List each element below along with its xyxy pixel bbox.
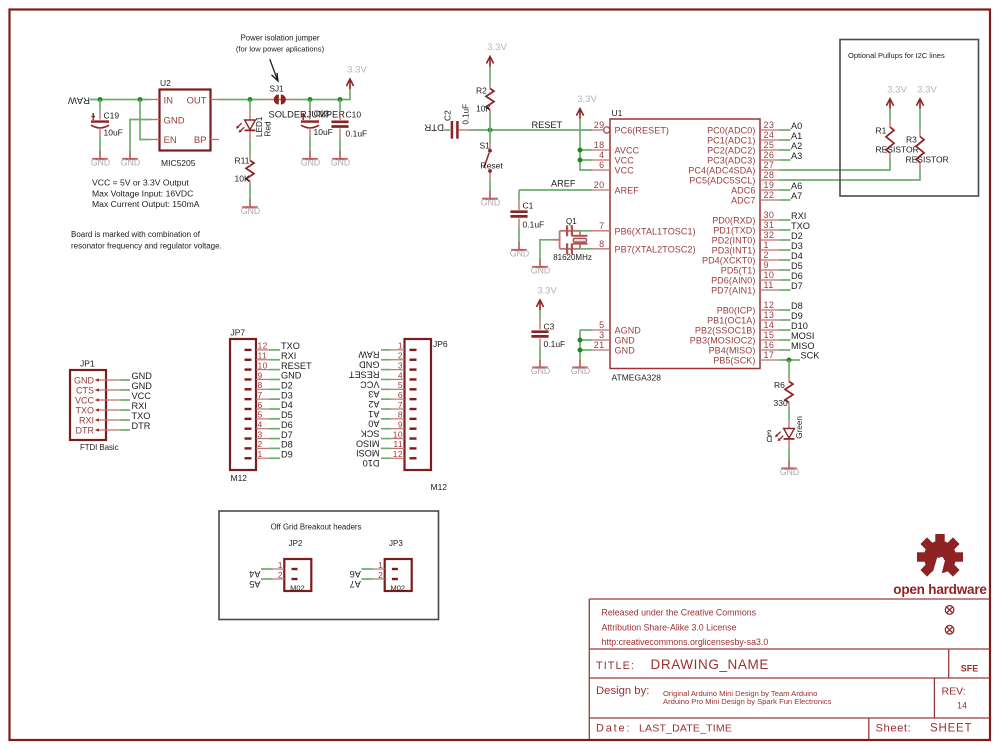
pin 4 VCC (592, 159, 610, 161)
header JP2 (273, 559, 312, 591)
svg-text:A0: A0 (791, 121, 802, 131)
svg-text:TXO: TXO (791, 221, 810, 231)
svg-text:JP7: JP7 (231, 328, 246, 338)
pin (489, 143, 491, 149)
pin 5 AGND (592, 329, 610, 331)
svg-text:PB3(MOSIOC2): PB3(MOSIOC2) (690, 336, 756, 346)
ground (241, 199, 261, 216)
pin (518, 200, 520, 210)
wire (518, 228, 520, 244)
svg-text:D4: D4 (281, 400, 293, 410)
svg-text:U1: U1 (612, 108, 623, 118)
svg-text:PD3(INT1): PD3(INT1) (712, 246, 756, 256)
svg-text:Optional Pullups for I2C lines: Optional Pullups for I2C lines (848, 51, 945, 60)
pin 10 (245, 368, 252, 370)
pin 19 ADC6 (760, 189, 779, 191)
header JP7 (230, 339, 269, 470)
svg-text:ATMEGA328: ATMEGA328 (612, 373, 662, 383)
svg-text:PD5(T1): PD5(T1) (721, 266, 756, 276)
svg-text:A6: A6 (791, 181, 802, 191)
svg-text:6: 6 (599, 160, 604, 170)
svg-text:A4: A4 (249, 569, 260, 579)
resistor R6 (785, 382, 793, 403)
svg-text:Max Current Output: 150mA: Max Current Output: 150mA (92, 199, 200, 209)
svg-text:1: 1 (258, 449, 263, 459)
svg-text:TITLE:: TITLE: (596, 660, 635, 672)
svg-text:3: 3 (398, 360, 403, 370)
svg-text:LAST_DATE_TIME: LAST_DATE_TIME (639, 723, 732, 735)
junction (578, 338, 583, 343)
pin 1 (392, 568, 398, 570)
svg-text:D7: D7 (281, 430, 293, 440)
capacitor C10 (331, 122, 348, 127)
svg-text:29: 29 (594, 120, 605, 130)
svg-text:M12: M12 (431, 482, 448, 492)
pin 1 PD3(INT1) (760, 249, 779, 251)
pin 26 PC3(ADC3) (760, 159, 779, 161)
pin 23 PC0(ADC0) (760, 129, 779, 131)
svg-text:1: 1 (378, 560, 383, 570)
svg-text:31: 31 (764, 220, 775, 230)
pin DTR (96, 429, 120, 431)
pin 9 PD5(T1) (760, 269, 779, 271)
pin 27 PC4(ADC4SDA) (760, 169, 779, 171)
3.3V supply (886, 84, 907, 109)
wire VCC (381, 378, 391, 380)
pin 3 (245, 437, 252, 439)
svg-text:0.1uF: 0.1uF (523, 220, 545, 230)
svg-text:C10: C10 (346, 110, 362, 120)
wire GND (269, 378, 280, 380)
svg-text:10: 10 (258, 360, 268, 370)
svg-text:3.3V: 3.3V (347, 65, 367, 76)
svg-text:BP: BP (194, 135, 207, 146)
pin (489, 110, 491, 114)
pin 7 (245, 398, 252, 400)
svg-text:A2: A2 (791, 141, 802, 151)
svg-text:DTR: DTR (132, 421, 151, 431)
wire TXO (269, 349, 280, 351)
svg-text:D10: D10 (363, 458, 380, 468)
pin 5 (410, 388, 417, 390)
wire GND (580, 349, 592, 351)
svg-text:AREF: AREF (551, 179, 576, 189)
svg-text:D8: D8 (281, 440, 293, 450)
svg-text:Green: Green (795, 416, 804, 439)
svg-text:GND: GND (531, 266, 551, 276)
switch S1 (484, 149, 492, 173)
wire net A2 (779, 149, 791, 151)
pin 11 (245, 359, 252, 361)
pin (489, 173, 491, 180)
svg-text:VCC: VCC (360, 379, 380, 389)
svg-text:ADC6: ADC6 (731, 186, 755, 196)
wire A2 (381, 398, 391, 400)
svg-text:Off Grid Breakout headers: Off Grid Breakout headers (271, 523, 362, 532)
pin (339, 129, 341, 139)
CC icon (945, 606, 954, 615)
resistor R1 (886, 127, 894, 153)
pin (309, 128, 311, 138)
svg-text:14: 14 (764, 320, 775, 330)
pin 8 PB7(XTAL2TOSC2) (592, 248, 610, 250)
svg-text:TXO: TXO (281, 341, 300, 351)
pin 28 PC5(ADC5SCL) (760, 179, 779, 181)
svg-text:Q1: Q1 (566, 217, 577, 226)
svg-text:22: 22 (764, 190, 775, 200)
svg-text:2: 2 (398, 351, 403, 361)
pin TXO (96, 409, 120, 411)
pin 14 PB2(SSOC1B) (760, 329, 779, 331)
svg-text:26: 26 (764, 150, 775, 160)
pin (99, 110, 101, 120)
svg-text:GND: GND (481, 197, 501, 207)
svg-text:AVCC: AVCC (615, 146, 640, 156)
pin (249, 157, 251, 161)
svg-text:PC0(ADC0): PC0(ADC0) (707, 126, 755, 136)
svg-text:SJ1: SJ1 (270, 84, 285, 93)
pin 2 (392, 578, 398, 580)
wire DTR (444, 129, 450, 131)
wire net A3 (779, 159, 791, 161)
svg-text:GND: GND (132, 381, 153, 391)
wire net D9 (779, 319, 791, 321)
svg-text:PB6(XTAL1TOSC1): PB6(XTAL1TOSC1) (615, 226, 696, 236)
svg-text:1: 1 (764, 240, 769, 250)
wire SDA to R1 (779, 158, 890, 170)
wire net D5 (779, 269, 791, 271)
svg-text:18: 18 (594, 140, 605, 150)
pin 8 (410, 418, 417, 420)
svg-text:20: 20 (594, 180, 605, 190)
pin 7 (410, 408, 417, 410)
open hardware logo (917, 534, 963, 586)
svg-text:GND: GND (531, 366, 551, 376)
wire (539, 310, 541, 321)
svg-text:PC2(ADC2): PC2(ADC2) (707, 146, 755, 156)
svg-text:8: 8 (258, 380, 263, 390)
svg-text:RESET: RESET (281, 361, 312, 371)
svg-text:DTR: DTR (424, 122, 444, 133)
CC icon (945, 626, 954, 635)
3.3V supply (486, 42, 507, 67)
svg-text:9: 9 (398, 420, 403, 430)
svg-text:D5: D5 (791, 261, 803, 271)
svg-text:C1: C1 (523, 201, 534, 211)
pin (539, 321, 541, 330)
wire RXI (269, 359, 280, 361)
svg-text:3: 3 (599, 330, 604, 340)
wire D6 (269, 428, 280, 430)
svg-text:10uF: 10uF (314, 127, 333, 137)
ground (531, 360, 551, 377)
pin 4 (245, 428, 252, 430)
pin VCC (96, 399, 120, 401)
LED D3 (775, 429, 794, 442)
capacitor C2 (452, 121, 458, 139)
svg-text:A7: A7 (350, 579, 361, 589)
svg-text:Arduino Pro Mini Design by Spa: Arduino Pro Mini Design by Spark Fun Ele… (663, 697, 832, 706)
wire net D2 (779, 239, 791, 241)
svg-text:A1: A1 (791, 131, 802, 141)
pin 1 (410, 349, 417, 351)
pin 3 GND (592, 339, 610, 341)
pin (539, 339, 541, 348)
svg-text:R11: R11 (235, 155, 250, 165)
svg-text:330: 330 (774, 398, 788, 408)
ground (331, 151, 351, 168)
wire net RXI (779, 219, 791, 221)
capacitor C3 (531, 332, 548, 337)
pin 12 (410, 457, 417, 459)
wire XTAL2 (580, 248, 592, 250)
svg-text:23: 23 (764, 120, 775, 130)
svg-text:GND: GND (164, 116, 185, 127)
svg-text:C19: C19 (104, 111, 120, 121)
svg-text:81620MHz: 81620MHz (553, 253, 592, 262)
wire RXI (120, 409, 131, 411)
svg-text:RAW: RAW (358, 350, 379, 360)
svg-text:Power isolation jumper: Power isolation jumper (241, 34, 320, 43)
wire RAW (381, 349, 391, 351)
svg-text:PB7(XTAL2TOSC2): PB7(XTAL2TOSC2) (615, 244, 696, 254)
pin 18 AVCC (592, 149, 610, 151)
svg-text:S1: S1 (480, 141, 491, 151)
pin 7 PB6(XTAL1TOSC1) (592, 230, 610, 232)
pin 13 PB1(OC1A) (760, 319, 779, 321)
svg-text:Date:: Date: (596, 723, 631, 735)
wire (309, 137, 311, 153)
svg-text:A3: A3 (368, 389, 379, 399)
wire (518, 190, 520, 200)
svg-text:D7: D7 (791, 281, 803, 291)
pin RXI (96, 419, 120, 421)
wire U2 OUT (219, 99, 264, 101)
wire (489, 180, 491, 193)
svg-text:AGND: AGND (615, 326, 642, 336)
svg-text:EN: EN (164, 135, 177, 146)
svg-text:0.1uF: 0.1uF (346, 129, 368, 139)
svg-text:28: 28 (764, 170, 775, 180)
svg-text:PB0(ICP): PB0(ICP) (717, 306, 756, 316)
svg-text:PD2(INT0): PD2(INT0) (712, 236, 756, 246)
svg-text:D: D (766, 434, 772, 443)
svg-text:D2: D2 (791, 231, 803, 241)
svg-text:3.3V: 3.3V (887, 84, 907, 95)
svg-text:A6: A6 (350, 569, 361, 579)
svg-text:2: 2 (258, 439, 263, 449)
pin (788, 403, 790, 407)
pin 9 (410, 428, 417, 430)
svg-text:Max Voltage Input: 16VDC: Max Voltage Input: 16VDC (92, 188, 193, 198)
svg-text:1: 1 (278, 560, 283, 570)
svg-text:GND: GND (615, 336, 636, 346)
wire D8 (269, 447, 280, 449)
wire GND (580, 339, 592, 341)
svg-text:6: 6 (258, 400, 263, 410)
svg-text:RAW: RAW (67, 95, 90, 106)
svg-text:1: 1 (398, 341, 403, 351)
wire (339, 138, 341, 153)
svg-text:D3: D3 (791, 241, 803, 251)
solder jumper SJ1 (274, 94, 286, 104)
wire SCL to R3 (779, 168, 920, 181)
svg-text:GND: GND (510, 249, 530, 259)
svg-text:0.1uF: 0.1uF (461, 104, 470, 125)
pin (889, 153, 891, 159)
svg-text:10: 10 (393, 429, 403, 439)
svg-text:Attribution Share-Alike 3.0 Li: Attribution Share-Alike 3.0 License (602, 623, 737, 633)
wire (249, 100, 251, 110)
svg-text:ADC7: ADC7 (731, 196, 755, 206)
wire RESET (381, 369, 391, 371)
svg-text:5: 5 (398, 380, 403, 390)
junction (98, 97, 103, 102)
svg-text:7: 7 (599, 221, 604, 231)
svg-text:OUT: OUT (186, 96, 206, 107)
junction (787, 358, 792, 363)
svg-text:PC1(ADC1): PC1(ADC1) (707, 136, 755, 146)
svg-text:6: 6 (398, 390, 403, 400)
pin 3 (410, 368, 417, 370)
title block (589, 599, 990, 739)
svg-text:SCK: SCK (360, 429, 380, 439)
wire net D3 (779, 249, 791, 251)
pin 20 AREF (592, 189, 610, 191)
ground (510, 242, 530, 259)
wire D3 (269, 398, 280, 400)
pin 11 (410, 447, 417, 449)
pin (339, 112, 341, 120)
wire D5 (269, 418, 280, 420)
svg-text:D8: D8 (791, 301, 803, 311)
microcontroller U1 ATMEGA328 (592, 119, 779, 369)
svg-text:GND: GND (615, 346, 636, 356)
wire A1 (381, 408, 391, 410)
svg-text:A7: A7 (791, 191, 802, 201)
svg-text:PC4(ADC4SDA): PC4(ADC4SDA) (688, 166, 755, 176)
wire (249, 186, 251, 201)
wire U2 GND to ground (130, 120, 151, 153)
wire 3.3V to VCC pins (580, 119, 592, 170)
svg-text:A1: A1 (368, 409, 379, 419)
svg-text:GND: GND (571, 366, 591, 376)
svg-text:3: 3 (258, 429, 263, 439)
svg-text:SFE: SFE (961, 663, 979, 673)
svg-text:GND: GND (301, 158, 321, 168)
capacitor C13 (301, 113, 319, 128)
wire AREF net (519, 189, 592, 191)
wire net MOSI (779, 339, 791, 341)
wire RAW to U2 IN (90, 99, 151, 101)
svg-text:10uF: 10uF (104, 128, 123, 138)
svg-text:MIC5205: MIC5205 (161, 158, 196, 168)
svg-text:U2: U2 (160, 78, 171, 88)
wire net D7 (779, 289, 791, 291)
svg-text:RESISTOR: RESISTOR (906, 155, 949, 165)
svg-text:A0: A0 (368, 419, 379, 429)
3.3V supply (536, 286, 557, 311)
svg-text:GND: GND (331, 158, 351, 168)
wire (788, 407, 790, 420)
junction (488, 128, 493, 133)
svg-text:10K: 10K (235, 174, 250, 184)
svg-text:D9: D9 (281, 449, 293, 459)
svg-text:Released under the Creative Co: Released under the Creative Commons (602, 608, 757, 618)
wire SCK net (779, 359, 800, 361)
wire net D6 (779, 279, 791, 281)
svg-text:RXI: RXI (281, 351, 296, 361)
svg-text:VCC: VCC (615, 156, 635, 166)
wire GND (120, 389, 131, 391)
pin (249, 110, 251, 120)
pin CTS (96, 389, 120, 391)
svg-text:5: 5 (258, 410, 263, 420)
svg-text:PB1(OC1A): PB1(OC1A) (707, 316, 755, 326)
svg-text:M02: M02 (290, 583, 305, 592)
svg-text:SCK: SCK (801, 350, 821, 360)
pin (919, 131, 921, 137)
svg-text:JP2: JP2 (289, 539, 303, 548)
svg-text:D4: D4 (791, 251, 803, 261)
svg-text:R6: R6 (774, 380, 785, 390)
wire A3 (381, 388, 391, 390)
ground (481, 191, 501, 208)
svg-text:D9: D9 (791, 311, 803, 321)
svg-text:(for low power aplications): (for low power aplications) (236, 44, 325, 53)
wire to 3.3V (296, 89, 350, 100)
svg-text:3.3V: 3.3V (537, 286, 557, 297)
svg-text:19: 19 (764, 180, 775, 190)
svg-text:SOLDERJUMPER: SOLDERJUMPER (269, 110, 346, 120)
wire net D8 (779, 309, 791, 311)
wire (539, 347, 541, 361)
pin 8 (245, 388, 252, 390)
wire (489, 67, 491, 85)
capacitor C1 (510, 212, 527, 217)
resistor R2 (486, 89, 494, 110)
svg-text:12: 12 (258, 341, 268, 351)
pin GND (96, 379, 120, 381)
wire VCC (120, 399, 131, 401)
svg-text:9: 9 (258, 370, 263, 380)
wire (919, 109, 921, 131)
svg-text:4: 4 (258, 420, 263, 430)
svg-text:12: 12 (393, 449, 403, 459)
pin 6 (245, 408, 252, 410)
svg-text:VCC: VCC (615, 166, 635, 176)
svg-text:RESET: RESET (348, 369, 379, 379)
svg-text:RXI: RXI (79, 416, 94, 426)
svg-text:24: 24 (764, 130, 775, 140)
pin 10 (410, 437, 417, 439)
pin 1 (292, 568, 298, 570)
pin (788, 378, 790, 382)
wire (579, 330, 581, 361)
wire net MISO (779, 349, 791, 351)
3.3V supply (576, 94, 597, 119)
svg-text:C2: C2 (443, 110, 453, 121)
svg-text:A3: A3 (791, 151, 802, 161)
svg-text:3.3V: 3.3V (577, 94, 597, 105)
svg-text:TXO: TXO (132, 411, 151, 421)
svg-text:Red: Red (264, 121, 273, 136)
svg-text:17: 17 (764, 350, 775, 360)
wire D7 (269, 438, 280, 440)
pin 2 (292, 578, 298, 580)
svg-text:PB5(SCK): PB5(SCK) (713, 356, 755, 366)
header JP6 (391, 339, 432, 470)
